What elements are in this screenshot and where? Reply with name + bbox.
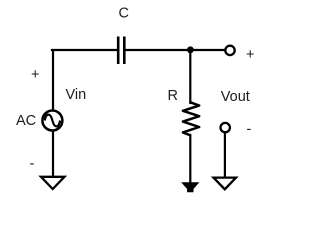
svg-text:AC: AC <box>16 113 36 129</box>
resistor R <box>183 102 199 135</box>
wire left vertical (AC top to corner) <box>52 51 54 110</box>
AC source V1 <box>42 111 62 131</box>
svg-text:Vout: Vout <box>221 89 250 105</box>
wire Vout lower terminal to ground <box>224 133 226 177</box>
capacitor C <box>118 37 124 65</box>
wire capacitor to output terminal <box>126 49 225 51</box>
terminal - (Vout lower, open circle) <box>221 123 230 132</box>
wire resistor bottom to ground arrow <box>189 135 191 183</box>
svg-text:R: R <box>168 88 178 104</box>
node junction dot <box>187 46 194 53</box>
svg-text:Vin: Vin <box>66 87 87 103</box>
svg-text:-: - <box>247 122 252 138</box>
svg-text:C: C <box>119 6 129 22</box>
svg-text:+: + <box>246 47 254 63</box>
ground (open triangle) under AC source <box>41 177 65 189</box>
wire AC bottom to ground <box>52 132 54 177</box>
wire top horizontal to capacitor <box>52 49 117 51</box>
svg-text:+: + <box>31 67 39 83</box>
svg-text:-: - <box>30 156 35 172</box>
terminal + (Vout upper, open circle) <box>225 46 234 55</box>
ground (filled arrow) under resistor <box>181 182 199 192</box>
ground (open triangle) under Vout terminal <box>214 178 237 190</box>
wire junction down to resistor <box>189 50 191 103</box>
